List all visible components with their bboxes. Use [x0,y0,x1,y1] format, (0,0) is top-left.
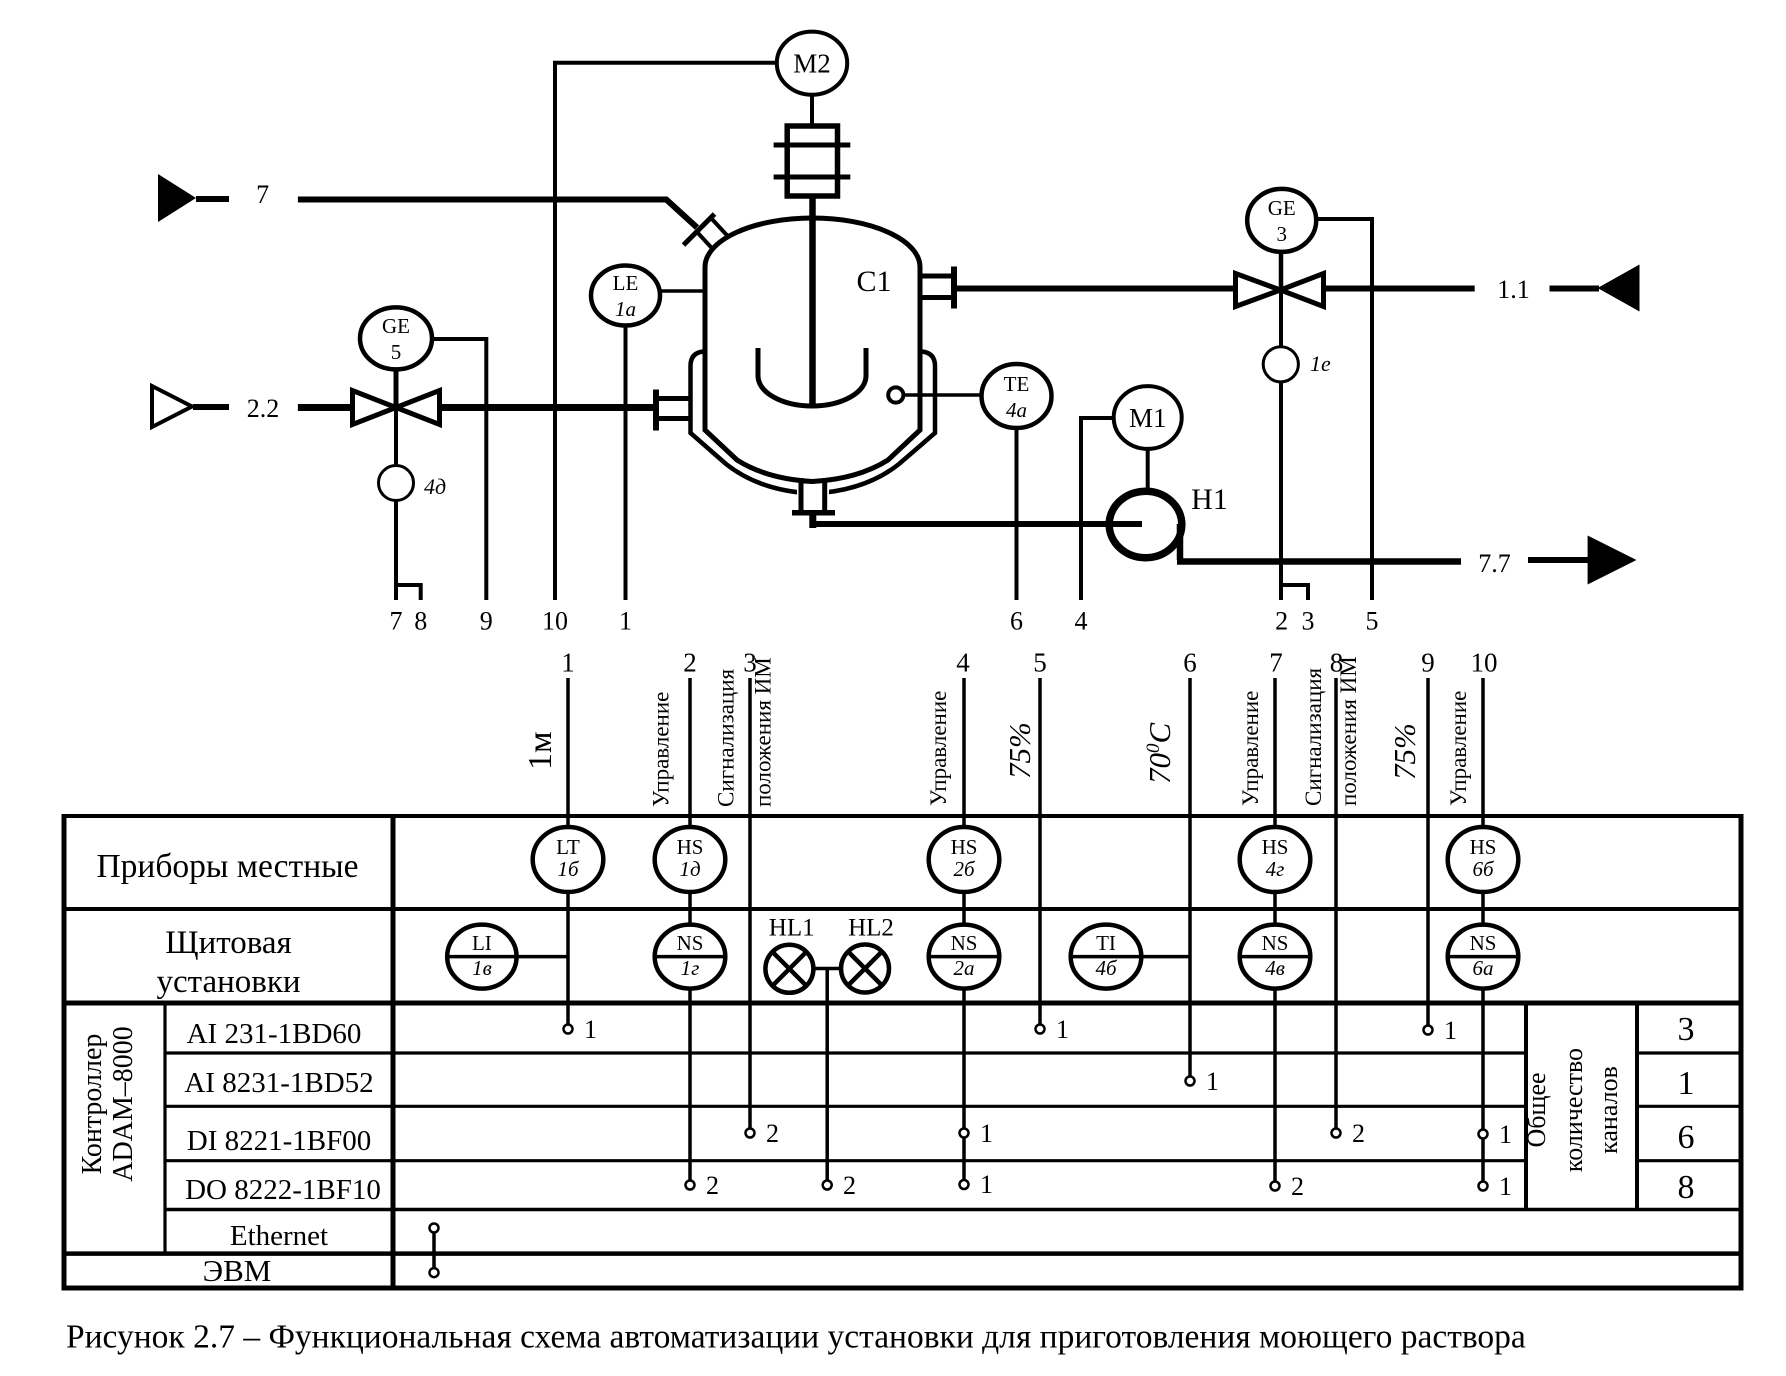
node col1 AI231 [564,1025,573,1034]
node col4 DO [960,1180,969,1189]
svg-text:1: 1 [1499,1120,1512,1149]
svg-text:NS: NS [951,931,978,955]
BUBBLE TEXT [472,835,1496,980]
arrow outlet line 1.1 (filled, points left) [1598,265,1640,312]
svg-text:GE: GE [1268,196,1296,220]
bottom nozzle riser [809,514,816,528]
svg-text:3: 3 [1678,1011,1695,1048]
svg-text:1м: 1м [522,731,559,770]
coupling / gearbox [787,126,837,196]
svg-text:4: 4 [956,648,970,678]
flange tick on diagonal nozzle [684,214,715,245]
pipe line 7.7 [1177,558,1461,565]
node col5 AI231 [1036,1025,1045,1034]
svg-text:1а: 1а [615,297,636,321]
svg-text:75%: 75% [1002,722,1037,779]
svg-text:DI 8221-1BF00: DI 8221-1BF00 [187,1125,371,1157]
wire valve to 1e [1279,290,1283,347]
table border right [1739,814,1744,1290]
svg-text:Сигнализация: Сигнализация [1301,668,1326,806]
wire LI1v to column 1 [517,955,568,959]
node col6 AI8231 [1186,1077,1195,1086]
column line 9 [1426,678,1430,1026]
instrument TE4a [982,364,1052,428]
table border DO/Ethernet [165,1208,1741,1212]
node col8 DI [1332,1129,1341,1138]
node col3 DI [746,1129,755,1138]
channels box right [1635,1003,1639,1210]
wire 4 from M1 [1081,418,1114,600]
svg-text:2: 2 [706,1171,719,1200]
svg-text:ЭВМ: ЭВМ [203,1253,272,1288]
lamp HL2 [841,945,889,993]
instrument NS6a [1448,925,1519,989]
table border row1/row2 [62,907,1743,911]
svg-text:NS: NS [677,931,704,955]
svg-text:количество: количество [1559,1048,1588,1172]
svg-text:4г: 4г [1266,857,1285,881]
svg-text:положения ИМ: положения ИМ [751,657,776,807]
wire stub line 2.2 [193,404,229,410]
svg-text:700С: 700С [1142,723,1177,785]
node col4 DI [960,1129,969,1138]
ROTATED COLUMN LABELS [522,656,1471,807]
svg-text:1: 1 [561,648,575,678]
svg-text:4д: 4д [424,474,446,499]
svg-text:10: 10 [542,607,568,636]
svg-text:HL2: HL2 [848,914,894,941]
diagonal nozzle tube wall lower [697,232,721,258]
positioner 1e [1263,347,1298,382]
svg-text:Общее: Общее [1522,1072,1551,1147]
column line 3 [748,678,752,1129]
temperature sensor well [888,387,903,402]
svg-text:ADAM–8000: ADAM–8000 [108,1026,139,1182]
svg-text:9: 9 [1421,648,1435,678]
right nozzle tube [922,276,954,298]
svg-text:Сигнализация: Сигнализация [714,669,739,807]
coupling flange line lower [774,175,851,180]
svg-text:Приборы местные: Приборы местные [96,848,358,885]
wire 6 from TE4a [1015,428,1019,600]
svg-text:H1: H1 [1191,483,1228,516]
instrument LT1b [533,827,604,892]
svg-text:2: 2 [1275,607,1288,636]
svg-text:10: 10 [1471,648,1498,678]
svg-text:LT: LT [556,835,580,859]
svg-text:AI 8231-1BD52: AI 8231-1BD52 [184,1067,373,1099]
instrument HS6b [1448,827,1519,892]
bottom nozzle flange bar [792,510,835,516]
pipe line 7 [298,200,697,228]
svg-text:4а: 4а [1006,398,1027,422]
instrument GE3 [1247,189,1316,252]
svg-text:C1: C1 [856,265,891,298]
svg-text:Управление: Управление [649,692,674,807]
vessel C1 body [705,218,920,482]
svg-text:установки: установки [156,964,300,1000]
svg-text:1: 1 [980,1170,993,1199]
node col7 DO [1271,1182,1280,1191]
svg-text:2: 2 [843,1171,856,1200]
svg-text:DO 8222-1BF10: DO 8222-1BF10 [185,1174,381,1206]
column line 7 [1273,678,1277,1182]
svg-text:3: 3 [1302,607,1315,636]
wire 9 from GE5 [432,339,486,600]
svg-text:6б: 6б [1472,857,1495,881]
svg-text:LI: LI [472,931,492,955]
node Ethernet [430,1224,439,1233]
wire GE3 stem to valve [1279,252,1284,290]
motor M1 [1114,386,1182,449]
instrument TI4b [1071,925,1142,989]
positioner 4d [379,466,414,501]
vessel C1 jacket [691,352,936,494]
table border AI231/AI8231 [165,1051,1741,1054]
pump H1 body [1109,491,1182,557]
svg-text:2б: 2б [953,857,976,881]
svg-text:4: 4 [1075,607,1088,636]
node lamps DO [823,1181,832,1190]
instrument HS2b [929,827,1000,892]
svg-text:положения ИМ: положения ИМ [1336,656,1361,806]
svg-text:GE: GE [382,314,410,338]
coupling flange line upper [774,143,851,148]
svg-text:1.1: 1.1 [1497,275,1530,304]
svg-text:3: 3 [1276,222,1287,246]
instrument LE1a [591,266,660,326]
wire 7 below 4d [394,501,398,601]
svg-text:2: 2 [1352,1119,1365,1148]
svg-text:4б: 4б [1095,956,1118,980]
svg-text:1: 1 [584,1015,597,1044]
diagonal nozzle tube wall upper [711,218,735,244]
svg-text:LE: LE [613,271,639,295]
svg-text:HS: HS [677,835,704,859]
svg-text:2: 2 [683,648,697,678]
wire 5 from GE3 [1316,219,1372,600]
arrow inlet line 7 (filled) [158,174,196,222]
svg-text:6: 6 [1678,1119,1695,1156]
suction pipe vessel to pump [810,521,1143,527]
table border left [62,814,67,1290]
wire 1 from LE1a [624,326,628,600]
svg-text:1: 1 [1678,1065,1695,1102]
instrument NS4v [1240,925,1311,989]
svg-text:Управление: Управление [926,691,951,806]
valve on line 1.1 [1236,274,1281,307]
instrument NS1g [655,925,726,989]
svg-text:2: 2 [766,1119,779,1148]
table border Ethernet/EVM [62,1251,1743,1256]
svg-text:NS: NS [1470,931,1497,955]
svg-text:TE: TE [1004,372,1030,396]
wire valve to 4d [394,408,398,467]
instrument HS1d [655,827,726,892]
motor M2 [777,32,847,95]
svg-text:AI 231-1BD60: AI 231-1BD60 [187,1018,362,1050]
svg-text:7.7: 7.7 [1478,549,1511,578]
wire 3 branch bracket [1281,585,1308,600]
wire HL1 to HL2 [814,967,840,971]
svg-text:Управление: Управление [1446,691,1471,806]
svg-text:2.2: 2.2 [247,394,280,423]
svg-text:1е: 1е [1310,351,1331,376]
svg-text:2а: 2а [954,956,975,980]
svg-text:Управление: Управление [1238,691,1263,806]
svg-text:9: 9 [480,607,493,636]
pipe line 2.2 [298,404,656,411]
table separator main [391,814,396,1290]
lamp HL1 [765,945,813,993]
svg-text:7: 7 [256,180,269,209]
pipe line 1.1 right of valve [1324,286,1475,292]
UPPER LABELS [247,180,1530,636]
wire lamps drop to DO [825,969,829,1181]
agitator impeller [758,348,866,406]
svg-text:HS: HS [1262,835,1289,859]
svg-text:5: 5 [1033,648,1047,678]
table separator controller label [163,1003,166,1254]
table border top [62,814,1744,818]
wire 2 below 1e [1279,382,1283,600]
left nozzle tube to jacket [656,399,692,419]
svg-text:HS: HS [1470,835,1497,859]
pipe line 1.1 left of valve [957,286,1236,292]
column line 4 [962,678,966,1180]
svg-text:TI: TI [1096,931,1116,955]
node labels [584,1015,1512,1201]
table border bottom [62,1286,1744,1291]
arrow outlet line 7.7 (filled, points right) [1588,536,1637,585]
svg-text:1в: 1в [472,956,492,980]
column line 2 [688,678,692,1181]
svg-text:1: 1 [980,1119,993,1148]
bottom nozzle tube walls [797,486,829,511]
wire stub line 7.7 [1528,557,1590,563]
column line 6 [1188,678,1192,1077]
wire 10 from M2 [555,63,777,600]
lamp labels [769,914,894,941]
svg-text:1д: 1д [679,857,700,881]
svg-text:1г: 1г [681,956,700,980]
svg-text:Щитовая: Щитовая [165,925,291,961]
svg-text:1: 1 [1206,1067,1219,1096]
table border DI/DO [165,1159,1741,1162]
right nozzle flange bar [951,267,957,309]
wire sensor to TE4a [903,393,981,397]
column line 8 [1334,678,1338,1129]
COLUMN HEADERS [561,648,1497,678]
wire Ethernet to EVM [432,1232,436,1269]
instrument HS4g [1240,827,1311,892]
instrument GE5 [360,307,432,369]
M1 stem to pump [1146,449,1150,492]
column line 1 [566,678,570,1025]
svg-text:5: 5 [391,340,402,364]
instrument NS2a [929,925,1000,989]
svg-text:6а: 6а [1473,956,1494,980]
svg-text:M2: M2 [793,49,831,79]
pump outlet tangent [1177,524,1184,560]
arrow inlet line 2.2 (open) [152,386,192,427]
wire GE5 stem to valve [394,369,399,408]
wire TI4b to column 6 [1141,955,1190,959]
svg-text:HS: HS [951,835,978,859]
svg-text:NS: NS [1262,931,1289,955]
svg-text:1: 1 [1499,1172,1512,1201]
svg-text:каналов: каналов [1594,1066,1623,1154]
svg-text:1: 1 [1056,1015,1069,1044]
node EVM [430,1268,439,1277]
node col10 DO [1479,1182,1488,1191]
wire LE1a to vessel [660,289,703,293]
channels box left [1524,1003,1528,1210]
table border row2/controller (thick) [62,1001,1744,1006]
svg-text:1: 1 [619,607,632,636]
wire stub line 1.1 [1550,286,1600,292]
svg-text:2: 2 [1291,1172,1304,1201]
svg-text:Рисунок 2.7 – Функциональная с: Рисунок 2.7 – Функциональная схема автом… [66,1319,1526,1356]
wire stub line 7 [196,196,229,202]
node col9 AI231 [1424,1026,1433,1035]
svg-text:HL1: HL1 [769,914,815,941]
wire 8 branch bracket [396,585,421,600]
TABLE TEXT [77,848,1695,1288]
svg-text:7: 7 [1269,648,1283,678]
svg-text:8: 8 [414,607,427,636]
svg-text:8: 8 [1678,1169,1695,1206]
svg-text:7: 7 [390,607,403,636]
svg-text:M1: M1 [1129,403,1167,433]
svg-text:1б: 1б [557,857,580,881]
svg-text:5: 5 [1366,607,1379,636]
svg-text:4в: 4в [1265,956,1285,980]
table border AI8231/DI [165,1105,1741,1108]
agitator shaft [809,196,816,404]
M2 stem [810,95,814,126]
svg-text:6: 6 [1010,607,1023,636]
left nozzle flange bar [653,390,659,431]
instrument LI1v [447,925,516,989]
svg-text:Контроллер: Контроллер [77,1034,108,1175]
valve on line 2.2 [353,391,397,425]
svg-text:75%: 75% [1387,723,1422,780]
node col10 DI [1479,1130,1488,1139]
column line 10 [1481,678,1485,1182]
node col2 DO [686,1181,695,1190]
svg-text:6: 6 [1183,648,1197,678]
svg-text:1: 1 [1444,1016,1457,1045]
svg-text:Ethernet: Ethernet [230,1220,328,1252]
column line 5 [1038,678,1042,1025]
